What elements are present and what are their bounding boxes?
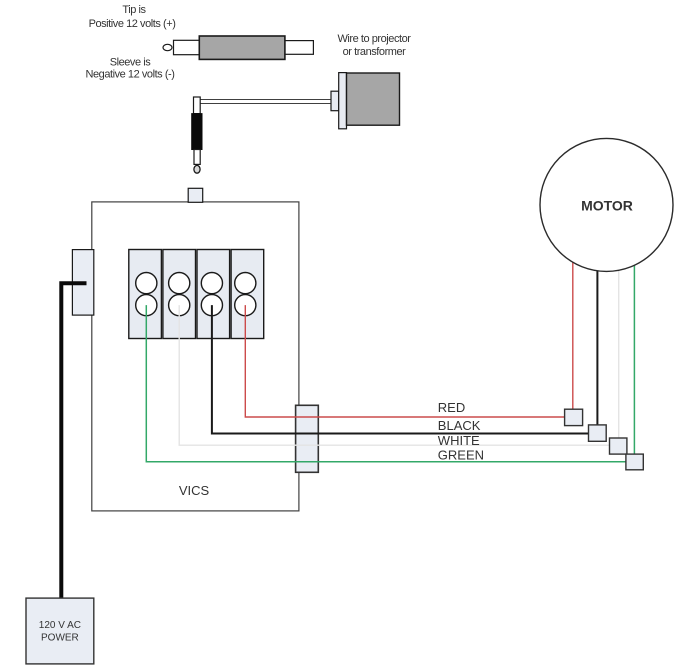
svg-text:BLACK: BLACK [438, 418, 481, 433]
svg-text:GREEN: GREEN [438, 447, 484, 462]
svg-text:Positive 12 volts (+): Positive 12 volts (+) [89, 18, 176, 30]
svg-text:MOTOR: MOTOR [581, 198, 633, 214]
svg-text:Wire to projector: Wire to projector [337, 33, 411, 45]
svg-text:or transformer: or transformer [343, 46, 407, 58]
svg-text:Tip is: Tip is [122, 4, 146, 16]
svg-text:120 V AC: 120 V AC [39, 620, 81, 631]
svg-text:Negative 12 volts (-): Negative 12 volts (-) [86, 69, 175, 81]
svg-text:Sleeve is: Sleeve is [110, 57, 152, 69]
svg-text:RED: RED [438, 400, 465, 415]
svg-text:VICS: VICS [179, 483, 210, 498]
svg-text:WHITE: WHITE [438, 433, 480, 448]
svg-text:POWER: POWER [41, 633, 79, 644]
